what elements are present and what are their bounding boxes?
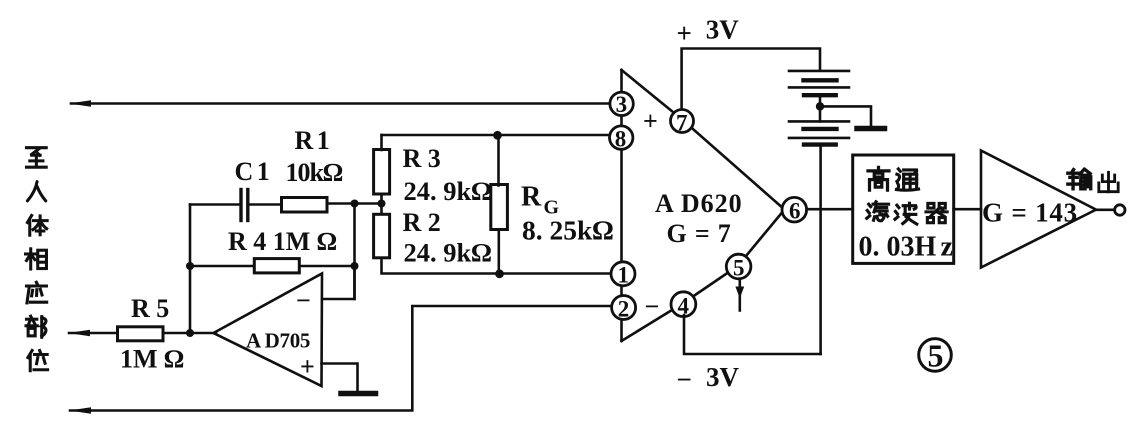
node junction R1 right xyxy=(351,200,359,208)
instrumentation amp U2 AD620 xyxy=(620,70,623,341)
resistor R3 xyxy=(374,150,390,195)
battery B2 xyxy=(789,121,849,144)
label left text wei (position) xyxy=(28,351,48,371)
svg-text:+: + xyxy=(677,18,692,48)
wire R3/R2 mid xyxy=(380,196,383,214)
wire battery midpoint to ground xyxy=(820,106,871,126)
svg-text:R 1: R 1 xyxy=(295,126,329,155)
pin 7 xyxy=(671,110,694,133)
label left text zhi (to) xyxy=(26,148,46,168)
label left text ying xyxy=(26,282,46,303)
svg-text:A D705: A D705 xyxy=(246,329,310,353)
ground AD705 plus xyxy=(341,391,376,397)
svg-text:−: − xyxy=(296,286,311,315)
label output shu xyxy=(1068,170,1091,189)
pin 3 xyxy=(610,92,633,115)
svg-text:3: 3 xyxy=(616,92,628,117)
svg-text:z: z xyxy=(941,232,953,263)
svg-text:1M Ω: 1M Ω xyxy=(120,345,184,374)
svg-text:G = 143: G = 143 xyxy=(982,198,1078,228)
svg-text:10kΩ: 10kΩ xyxy=(286,158,343,187)
svg-text:5: 5 xyxy=(928,338,944,374)
svg-text:+: + xyxy=(300,352,315,381)
svg-text:3V: 3V xyxy=(706,362,740,392)
node junction R4 right xyxy=(351,262,359,270)
wire R5 to AD705 xyxy=(163,332,216,335)
battery B1 xyxy=(789,71,849,122)
resistor RG xyxy=(491,185,508,230)
capacitor C1 xyxy=(241,190,248,221)
label filter bo (wave) xyxy=(895,203,917,224)
wire pin4 to -3V xyxy=(684,315,821,354)
node junction R5/feedback xyxy=(186,329,194,337)
pin 5 xyxy=(726,254,751,279)
figure number 5 xyxy=(919,338,952,374)
op-amp U3 output G=143 xyxy=(981,151,1096,268)
pin 1 xyxy=(611,262,635,286)
label filter tong (pass) xyxy=(896,169,918,190)
svg-text:+: + xyxy=(643,107,658,136)
wire top input line xyxy=(71,102,610,105)
wire top input arrowhead xyxy=(69,100,91,107)
wire R2 bottom xyxy=(382,259,612,274)
filter box xyxy=(853,155,954,263)
wire R5 input arrowhead xyxy=(68,330,90,337)
label left text xiang (corresponding) xyxy=(26,249,47,269)
wire RG top xyxy=(497,135,500,186)
wire feedback vertical left xyxy=(189,205,192,334)
svg-text:1: 1 xyxy=(618,263,630,288)
wire R3 top to pin8 xyxy=(382,134,611,137)
wire pin7 to +3V rail xyxy=(682,49,820,109)
wire AD705 plus input xyxy=(322,364,358,392)
label filter qi (device) xyxy=(926,203,947,222)
svg-text:G = 7: G = 7 xyxy=(667,219,732,248)
svg-text:2: 2 xyxy=(618,297,630,322)
wire RG bottom xyxy=(497,230,500,274)
svg-text:6: 6 xyxy=(789,199,801,224)
svg-text:−: − xyxy=(677,365,692,395)
wire R1 to R3/R2 node xyxy=(327,202,382,205)
wire R3 top stub xyxy=(380,135,383,150)
wire AD705 minus input xyxy=(322,266,355,299)
wire R4 left xyxy=(190,265,254,268)
label filter lv (filter) xyxy=(867,202,889,221)
resistor R5 xyxy=(118,327,164,341)
svg-text:C 1: C 1 xyxy=(235,157,269,186)
svg-text:R: R xyxy=(521,182,542,213)
resistor R2 xyxy=(374,214,390,257)
label left text ti (body) xyxy=(27,215,47,235)
wire minus feedback vertical xyxy=(353,204,356,300)
wire C1 to R1 xyxy=(248,203,281,206)
op-amp U1 AD705 xyxy=(214,274,323,387)
resistor R1 xyxy=(282,198,328,213)
resistor R4 xyxy=(254,259,299,273)
svg-text:3V: 3V xyxy=(706,15,740,45)
svg-text:24. 9kΩ: 24. 9kΩ xyxy=(404,176,492,206)
svg-text:03H: 03H xyxy=(887,232,937,263)
ground battery xyxy=(857,126,885,132)
wire pin5 arrow xyxy=(738,279,741,311)
wire output xyxy=(1096,209,1115,212)
pin 8 xyxy=(610,126,633,149)
svg-text:R 2: R 2 xyxy=(403,208,441,237)
label left text ren (human) xyxy=(27,182,45,201)
wire bottom arrowhead xyxy=(69,407,91,414)
wire battery negative down xyxy=(819,145,822,354)
label output chu xyxy=(1099,172,1118,191)
svg-text:4: 4 xyxy=(678,294,690,319)
svg-text:8: 8 xyxy=(615,127,627,152)
node junction RG top xyxy=(493,131,502,140)
pin 2 xyxy=(612,296,636,320)
wire filter to output amp xyxy=(954,208,981,211)
svg-text:5: 5 xyxy=(733,256,745,281)
pin 4 xyxy=(671,292,696,317)
terminal output xyxy=(1115,205,1125,215)
svg-text:R 5: R 5 xyxy=(131,294,169,323)
node junction RG bottom xyxy=(495,269,504,278)
node junction R3/R2 midpoint xyxy=(378,200,386,208)
wire R5 input xyxy=(69,332,118,335)
wire C1 left xyxy=(190,203,239,206)
pin 6 xyxy=(782,197,807,222)
svg-text:24. 9kΩ: 24. 9kΩ xyxy=(404,238,492,268)
svg-text:8. 25kΩ: 8. 25kΩ xyxy=(522,215,613,246)
wire pin6 to filter xyxy=(807,208,853,211)
svg-text:R 4 1M Ω: R 4 1M Ω xyxy=(228,227,337,256)
node junction R4 left xyxy=(186,262,194,270)
label left text bu (part) xyxy=(26,316,46,337)
wire bottom line xyxy=(70,306,612,411)
svg-text:R 3: R 3 xyxy=(403,144,441,173)
svg-text:0.: 0. xyxy=(859,232,880,263)
node battery midpoint xyxy=(816,102,824,110)
svg-text:−: − xyxy=(645,292,660,321)
svg-text:A D620: A D620 xyxy=(655,189,743,218)
label filter gao (high) xyxy=(868,167,889,190)
wire R4 right xyxy=(299,265,354,268)
svg-text:7: 7 xyxy=(676,111,688,136)
